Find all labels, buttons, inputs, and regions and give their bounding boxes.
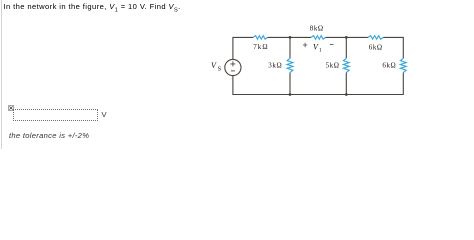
svg-text:8kΩ: 8kΩ bbox=[310, 24, 323, 32]
source minus terminal bbox=[231, 70, 235, 72]
resistor R6 5kohm vertical zigzag bbox=[343, 58, 349, 72]
source plus terminal bbox=[230, 61, 235, 66]
wire left top: source to 7k bbox=[233, 37, 253, 59]
svg-text:3kΩ: 3kΩ bbox=[268, 61, 281, 69]
wire: 5k down to bottom rail bbox=[345, 73, 347, 95]
resistor R1 7kohm horizontal zigzag bbox=[253, 36, 267, 40]
polarity plus mark for V1 bbox=[303, 43, 307, 47]
wire: 8k to node B bbox=[326, 36, 368, 38]
resistor R5 3kohm vertical zigzag bbox=[287, 58, 293, 72]
wire: right side bottom + bottom rail + left up to source bbox=[233, 73, 403, 95]
voltage source VS circle bbox=[225, 59, 241, 75]
resistor R2 8kohm horizontal zigzag bbox=[311, 36, 325, 40]
svg-text:5kΩ: 5kΩ bbox=[326, 61, 339, 69]
polarity minus mark for V1 bbox=[330, 44, 334, 46]
node A junction dot bbox=[289, 36, 292, 39]
question text bbox=[4, 2, 181, 14]
node B junction dot bbox=[345, 36, 348, 39]
tolerance note bbox=[9, 131, 89, 140]
answer input box bbox=[13, 109, 98, 122]
resistor R3 6kohm top horizontal zigzag bbox=[368, 36, 384, 40]
svg-text:7kΩ: 7kΩ bbox=[253, 43, 267, 51]
broken image icon bbox=[8, 105, 14, 111]
svg-text:1: 1 bbox=[319, 48, 322, 54]
left table border bbox=[1, 0, 2, 149]
bottom junction dot under 5k bbox=[345, 93, 348, 96]
svg-text:6kΩ: 6kΩ bbox=[369, 44, 382, 52]
wire: 3k down to bottom rail bbox=[289, 73, 291, 95]
svg-text:S: S bbox=[218, 66, 222, 73]
wire: top right corner down bbox=[383, 37, 403, 58]
wire: node A down to 3k bbox=[289, 37, 291, 58]
svg-text:V: V bbox=[211, 61, 217, 70]
unit V bbox=[102, 110, 107, 119]
bottom junction dot under 3k bbox=[289, 93, 292, 96]
wire: node B down to 5k bbox=[345, 37, 347, 58]
svg-text:6kΩ: 6kΩ bbox=[382, 61, 395, 69]
wire: 7k to node A bbox=[268, 36, 312, 38]
resistor R4 6kohm vertical right zigzag bbox=[400, 58, 406, 72]
